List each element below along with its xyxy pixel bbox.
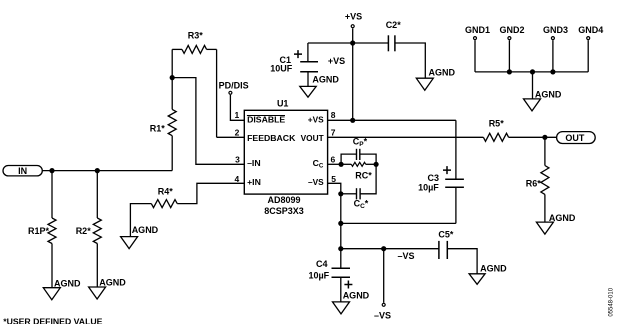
pin 8 label +VS: [308, 115, 324, 125]
wire R1 vertical: [171, 49, 173, 170]
resistor RC*: [341, 162, 376, 180]
wire C2 to AGND: [395, 43, 425, 78]
wire +VS rail right: [353, 42, 389, 44]
svg-text:DISABLE: DISABLE: [247, 115, 285, 125]
svg-text:5: 5: [331, 174, 336, 184]
terminal +VS: [345, 12, 362, 28]
wire pin5: [328, 183, 341, 194]
resistor R3*: [172, 31, 216, 54]
svg-text:R3*: R3*: [188, 31, 204, 41]
pin 3 label -IN: [247, 158, 261, 168]
pin 5 label -VS: [308, 177, 324, 187]
ground AGND (R6): [536, 213, 575, 234]
svg-text:AGND: AGND: [549, 213, 576, 223]
resistor R4*: [151, 186, 177, 207]
terminal IN: [3, 166, 42, 177]
svg-text:FEEDBACK: FEEDBACK: [247, 133, 296, 143]
pin number 1: [234, 110, 239, 120]
svg-text:+VS: +VS: [328, 56, 345, 66]
svg-text:2: 2: [235, 128, 240, 138]
wire feedback to pin3: [172, 78, 244, 165]
svg-text:–VS: –VS: [374, 311, 391, 321]
node pin5: [338, 191, 343, 196]
node -VS terminal drop: [381, 246, 386, 251]
svg-text:*USER DEFINED VALUE: *USER DEFINED VALUE: [3, 316, 102, 324]
pin number 6: [331, 154, 336, 164]
terminal GND2: [499, 25, 524, 40]
op-amp U1 box: [244, 98, 327, 194]
wire GND bus to AGND: [532, 72, 534, 99]
svg-text:3: 3: [235, 154, 240, 164]
wire C4 to AGND: [340, 277, 342, 302]
node GND2 bus: [507, 69, 512, 74]
wire R2 drop: [96, 171, 98, 287]
svg-text:–VS: –VS: [398, 251, 415, 261]
capacitor C2*: [386, 20, 402, 51]
wire IN rail: [42, 170, 172, 172]
svg-text:AGND: AGND: [429, 68, 456, 78]
ground AGND (GND bus): [524, 89, 562, 111]
svg-text:7: 7: [331, 128, 336, 138]
resistor R6*: [526, 166, 549, 195]
node pin8: [350, 118, 355, 123]
svg-text:R5*: R5*: [489, 119, 505, 129]
resistor R1*: [150, 109, 176, 135]
svg-text:–IN: –IN: [247, 158, 261, 168]
ground AGND (R4): [121, 225, 159, 249]
svg-text:AGND: AGND: [480, 264, 507, 274]
part number AD8099: [267, 195, 300, 205]
capacitor Cp*: [341, 137, 376, 165]
svg-text:AGND: AGND: [54, 278, 81, 288]
svg-text:10µF: 10µF: [418, 183, 439, 193]
svg-text:+VS: +VS: [308, 115, 324, 125]
terminal GND3: [543, 25, 568, 40]
label +VS mid: [328, 56, 345, 66]
capacitor C1 10UF: [270, 50, 318, 74]
svg-text:AGND: AGND: [132, 225, 159, 235]
wire R6 drop: [544, 137, 546, 222]
wire R3 to pin2: [217, 49, 245, 137]
wire GND1 drop: [474, 40, 476, 72]
terminal GND1: [465, 25, 490, 40]
svg-text:RC*: RC*: [355, 171, 372, 181]
svg-text:R6*: R6*: [526, 179, 542, 189]
wire PD/DIS to pin1: [230, 95, 244, 120]
pin 4 label +IN: [247, 177, 261, 187]
pin number 7: [331, 128, 336, 138]
figure number 05548-010: [608, 287, 614, 316]
resistor R1P*: [28, 218, 56, 244]
svg-text:GND4: GND4: [578, 25, 603, 35]
wire -VS terminal drop: [383, 249, 385, 303]
capacitor C5*: [438, 230, 454, 260]
svg-text:8CSP3X3: 8CSP3X3: [264, 206, 304, 216]
wire VOUT: [328, 136, 484, 138]
ground AGND (R2): [89, 278, 127, 300]
ground AGND (C2): [416, 68, 455, 91]
wire R4 to AGND: [130, 204, 151, 237]
wire pin4 to R4: [177, 183, 244, 203]
terminal PD/DIS: [219, 81, 249, 95]
node OUT: [542, 135, 547, 140]
svg-text:GND1: GND1: [465, 25, 490, 35]
pin 6 label Cc: [313, 158, 324, 170]
capacitor C4 10uF: [308, 259, 352, 289]
wire GND3 drop: [552, 40, 554, 72]
wire -VS rail1: [341, 222, 456, 224]
svg-text:R2*: R2*: [76, 226, 92, 236]
svg-text:R1P*: R1P*: [28, 226, 50, 236]
wire GND2 drop: [508, 40, 510, 72]
wire GND bus: [475, 71, 588, 73]
resistor R2*: [76, 218, 102, 244]
svg-text:05548-010: 05548-010: [608, 287, 614, 316]
wire +VS rail left: [308, 43, 353, 62]
ground AGND (C5): [469, 264, 507, 285]
svg-text:10UF: 10UF: [270, 64, 293, 74]
wire +VS drop: [352, 28, 354, 120]
svg-text:GND3: GND3: [543, 25, 568, 35]
terminal OUT: [557, 132, 596, 144]
svg-text:AD8099: AD8099: [267, 195, 300, 205]
pin 7 label VOUT: [301, 133, 324, 143]
resistor R5*: [483, 119, 508, 142]
node comp A: [339, 162, 344, 167]
footnote user defined value: [3, 316, 102, 324]
svg-text:R1*: R1*: [150, 124, 166, 134]
svg-text:AGND: AGND: [312, 74, 339, 84]
svg-text:C4: C4: [316, 259, 328, 269]
node GND3 bus: [550, 69, 555, 74]
capacitor C3 10uF: [418, 166, 464, 193]
pin number 2: [235, 128, 240, 138]
node IN-A: [49, 168, 54, 173]
wire GND4 drop: [587, 40, 589, 72]
svg-text:R4*: R4*: [158, 186, 174, 196]
wire R5 to OUT: [509, 136, 557, 138]
svg-text:8: 8: [331, 110, 336, 120]
svg-text:C2*: C2*: [386, 20, 402, 30]
pin number 8: [331, 110, 336, 120]
svg-text:GND2: GND2: [499, 25, 524, 35]
svg-text:6: 6: [331, 154, 336, 164]
wire C5 to AGND: [447, 249, 477, 274]
node -VS rail1: [338, 221, 343, 226]
pin number 3: [235, 154, 240, 164]
package 8CSP3X3: [264, 206, 304, 216]
svg-text:IN: IN: [18, 166, 27, 176]
node GND bus center: [530, 69, 535, 74]
svg-text:C5*: C5*: [438, 230, 454, 240]
node IN-B: [95, 168, 100, 173]
svg-text:4: 4: [234, 174, 239, 184]
wire -VS rail2: [341, 248, 439, 250]
svg-text:AGND: AGND: [99, 278, 126, 288]
svg-text:–VS: –VS: [308, 177, 324, 187]
wire pin6: [328, 163, 342, 165]
svg-text:C3: C3: [427, 173, 439, 183]
ground AGND (C4): [333, 290, 370, 314]
svg-text:U1: U1: [277, 98, 289, 108]
wire pin5 down: [340, 194, 342, 268]
svg-text:+IN: +IN: [247, 177, 261, 187]
node feedback: [170, 75, 175, 80]
svg-text:1: 1: [234, 110, 239, 120]
pin number 5: [331, 174, 336, 184]
capacitor Cc*: [341, 164, 376, 210]
node +VS rail: [350, 40, 355, 45]
pin 1 label DISABLE: [247, 115, 286, 125]
svg-text:VOUT: VOUT: [301, 133, 324, 143]
terminal GND4: [578, 25, 603, 40]
label -VS rail: [398, 251, 415, 261]
node comp B: [374, 162, 379, 167]
svg-text:AGND: AGND: [343, 290, 370, 300]
pin number 4: [234, 174, 239, 184]
ground AGND (R1P): [43, 278, 81, 299]
svg-text:+VS: +VS: [345, 12, 362, 22]
wire C3 to -VS rail: [455, 187, 457, 223]
wire pin8 rail: [328, 120, 456, 179]
svg-text:PD/DIS: PD/DIS: [219, 81, 249, 91]
ground AGND (C1): [300, 74, 340, 97]
svg-text:OUT: OUT: [565, 133, 585, 143]
wire C1 to AGND: [307, 72, 309, 87]
terminal -VS: [374, 303, 391, 320]
pin 2 label FEEDBACK: [247, 133, 296, 143]
svg-text:AGND: AGND: [535, 89, 562, 99]
node -VS rail2: [338, 246, 343, 251]
svg-text:10µF: 10µF: [308, 271, 329, 281]
wire R1P drop: [51, 171, 53, 288]
